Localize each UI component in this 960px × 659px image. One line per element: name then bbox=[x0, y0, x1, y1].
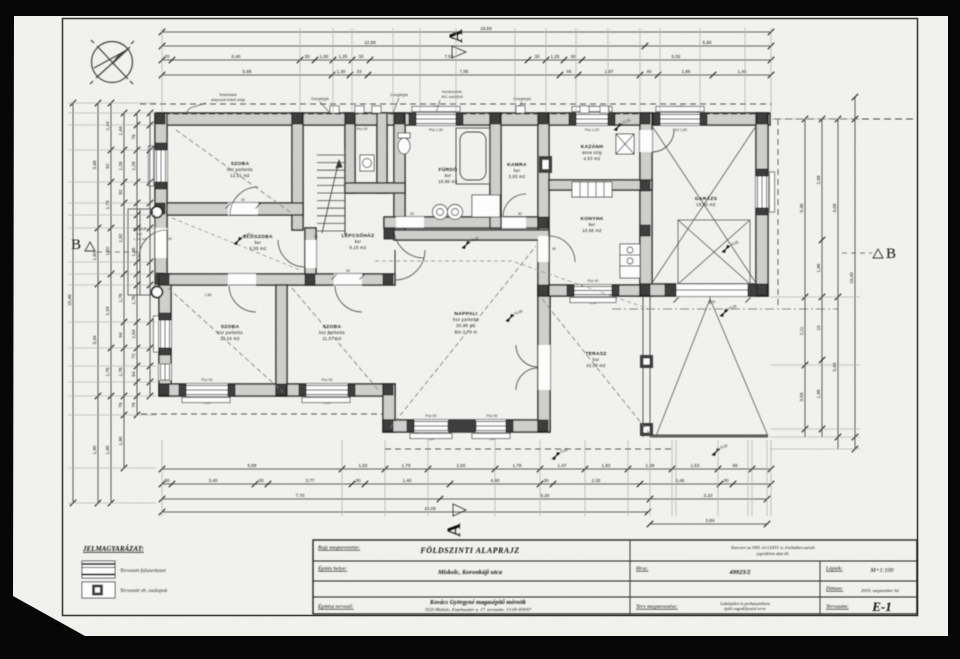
column block J11 bbox=[276, 384, 286, 395]
window top window bath bbox=[416, 113, 456, 125]
leader labels above wall bbox=[211, 89, 532, 102]
column block W10 bbox=[456, 113, 463, 125]
wall garage south bbox=[640, 284, 768, 296]
column block J24 bbox=[640, 180, 650, 191]
ceiling slope dashed bedroom3 bbox=[292, 288, 380, 392]
column block J12 bbox=[383, 384, 393, 395]
level mark nappali bbox=[506, 309, 523, 322]
wall pantry west bbox=[490, 113, 501, 228]
window living south window 2 bbox=[476, 420, 508, 432]
hall slope dashed bbox=[172, 218, 300, 270]
wall exterior left upper bbox=[155, 113, 167, 284]
window bedroom2 window bbox=[159, 320, 171, 348]
terrace door sill bbox=[448, 420, 476, 432]
column block J17 bbox=[757, 284, 767, 295]
window sill bbox=[412, 107, 460, 112]
window bedroom2 south window bbox=[186, 384, 228, 396]
wall bath corridor south bbox=[384, 217, 538, 228]
north symbol bbox=[90, 40, 134, 84]
room label ELOSZOBA bbox=[243, 233, 273, 251]
wall wc south bbox=[345, 183, 405, 193]
column block J23 bbox=[159, 274, 169, 285]
column block W8 bbox=[612, 285, 619, 296]
wall bedroom1 south bbox=[167, 203, 303, 215]
staircase bbox=[317, 150, 345, 235]
small opening dimension marks bbox=[183, 107, 750, 437]
terrace post 2 bbox=[640, 423, 653, 436]
roof overhang dashed line top bbox=[140, 103, 772, 105]
wall bedroom block bottom bbox=[159, 384, 395, 396]
dimension line left 1 bbox=[67, 100, 76, 506]
dimension line top 1 bbox=[159, 26, 774, 35]
dimension line left 4 bbox=[118, 110, 127, 471]
door kitchen door bbox=[549, 236, 575, 262]
wall kitchen south bbox=[538, 285, 652, 296]
level mark terrace sw bbox=[552, 448, 568, 460]
wall wc east bbox=[377, 113, 387, 193]
room label SZOBA 3 bbox=[319, 324, 345, 341]
window small window left bbox=[159, 364, 171, 380]
section line A top marker bbox=[446, 29, 467, 58]
column block J13 bbox=[383, 420, 393, 431]
column block W18 bbox=[159, 348, 171, 355]
wall garage west bbox=[640, 113, 652, 296]
column block J4 bbox=[490, 113, 500, 124]
dimension line right 1 bbox=[799, 116, 808, 437]
column block W20 bbox=[756, 208, 768, 215]
column block J19 bbox=[538, 217, 548, 228]
porch column 1 bbox=[152, 207, 163, 218]
legend column symbol bbox=[82, 582, 115, 598]
door living room entry bbox=[395, 250, 425, 280]
wc toilet bbox=[398, 133, 410, 154]
door bath door bbox=[394, 228, 424, 258]
boiler bbox=[616, 134, 634, 154]
level mark roof apex bbox=[720, 304, 737, 317]
wall bedroom divider bbox=[276, 285, 287, 396]
room label KONYHA bbox=[581, 216, 604, 233]
wall stair hall west bbox=[305, 228, 316, 285]
terrace post 1 bbox=[640, 355, 653, 368]
window top window garage bbox=[660, 113, 700, 125]
column block J5 bbox=[538, 113, 548, 124]
door living terrace door b bbox=[516, 368, 538, 390]
door bedroom2 door bbox=[229, 285, 256, 312]
level mark stairwell bbox=[462, 236, 479, 249]
window kitchen south window bbox=[574, 285, 612, 296]
column block J3 bbox=[394, 113, 404, 124]
window sill bbox=[572, 107, 612, 112]
wall hall south bbox=[159, 274, 395, 285]
vent brick bbox=[600, 106, 609, 113]
title block bbox=[313, 540, 917, 614]
window left bedroom1 window bbox=[155, 150, 167, 182]
room label KAMRA bbox=[507, 162, 527, 179]
masonry hatch line on top wall bbox=[155, 113, 770, 115]
dimension line top 2 bbox=[159, 40, 774, 49]
room label LEPCSOHAZ bbox=[342, 231, 375, 250]
wall shaft east bbox=[394, 113, 405, 230]
wall pantry east bbox=[538, 113, 549, 228]
garage diagonals bbox=[652, 126, 756, 284]
wall living room north bbox=[394, 230, 549, 240]
column block J14 bbox=[538, 420, 548, 431]
door bedroom3 door bbox=[335, 285, 362, 312]
column block W5 bbox=[407, 420, 414, 432]
roof overhang dashed line bottom-left bbox=[141, 413, 392, 415]
dimension line top 3 bbox=[159, 54, 774, 63]
wall exterior left lower bbox=[159, 274, 171, 396]
roof edge line below garage bbox=[612, 308, 838, 310]
dimension line left 6 bbox=[147, 110, 153, 399]
basement stair bbox=[572, 182, 612, 197]
room label GARAZS bbox=[695, 195, 718, 207]
column block J22 bbox=[383, 274, 393, 285]
plot boundary dashed line right bbox=[774, 118, 913, 120]
wall kitchen west bbox=[538, 228, 549, 296]
wall wc west bbox=[345, 113, 355, 193]
room label SZELF bbox=[133, 226, 147, 241]
bathtub bbox=[456, 128, 490, 184]
column block garage jamb R bbox=[748, 284, 757, 296]
column block J9 bbox=[155, 273, 165, 284]
wall garage east bbox=[756, 113, 768, 296]
column block W13 bbox=[653, 113, 660, 125]
level mark garage bbox=[722, 240, 739, 253]
column block W11 bbox=[569, 113, 576, 125]
window sill bbox=[472, 434, 510, 439]
window sill bbox=[302, 398, 350, 403]
window sill bbox=[656, 107, 704, 112]
level mark eloszoba bbox=[234, 232, 251, 245]
small washbasin bbox=[360, 155, 374, 171]
window bedroom3 south window bbox=[306, 384, 348, 396]
room label NAPPALI bbox=[453, 311, 479, 334]
vent brick bbox=[580, 106, 589, 113]
window sill bbox=[182, 398, 230, 403]
legend bbox=[82, 545, 168, 598]
column block W2 bbox=[228, 384, 235, 396]
room label SZOBA 2 bbox=[217, 324, 243, 341]
column block W3 bbox=[299, 384, 306, 396]
dimension line bottom 4 bbox=[159, 506, 651, 515]
column block W14 bbox=[700, 113, 707, 125]
column block J20 bbox=[384, 228, 394, 239]
column block J10 bbox=[159, 384, 169, 395]
porch column 2 bbox=[152, 287, 163, 298]
dimension line right 2 bbox=[816, 116, 825, 437]
kitchen counter bbox=[620, 244, 640, 278]
vent brick bbox=[516, 106, 525, 113]
window sill bbox=[570, 298, 616, 303]
column block garage jamb L bbox=[665, 284, 676, 296]
dimension line right 3 bbox=[832, 116, 841, 449]
dimension line left 3 bbox=[105, 100, 114, 506]
dimension line bottom 5 bbox=[647, 518, 770, 527]
column block J25 bbox=[345, 113, 355, 124]
vent brick bbox=[330, 106, 339, 113]
dimension line left 5 bbox=[131, 110, 140, 418]
wall living room south bbox=[383, 420, 550, 432]
vent brick bbox=[372, 106, 381, 113]
dimension line bottom 2 bbox=[159, 478, 774, 487]
room label SZOBA 1 bbox=[227, 161, 253, 178]
legend wall symbol bbox=[82, 561, 115, 578]
garage door opening bbox=[676, 284, 748, 296]
column block J18 bbox=[640, 225, 650, 236]
column block J1 bbox=[155, 113, 165, 124]
column block W1 bbox=[179, 384, 186, 396]
washbasin double bbox=[433, 205, 463, 220]
ceiling slope dashed bedroom1 bbox=[176, 130, 290, 212]
door bedroom1 door bbox=[230, 187, 258, 215]
column block W4 bbox=[348, 384, 355, 396]
room label TERASZ bbox=[585, 351, 606, 368]
window top window boiler bbox=[576, 113, 608, 125]
column block W19 bbox=[756, 169, 768, 176]
column block J2 bbox=[292, 113, 302, 124]
ceiling slope dashed terrace bbox=[542, 299, 650, 434]
roof hip triangle bbox=[652, 296, 768, 436]
ceiling slope dashed bedroom2 bbox=[168, 288, 283, 392]
column block J8 bbox=[155, 203, 165, 214]
room label FURDO bbox=[438, 166, 458, 184]
column block W6 bbox=[506, 420, 513, 432]
wall boiler south bbox=[549, 180, 652, 190]
chimney bbox=[539, 156, 552, 173]
dimension line bottom 3 bbox=[159, 493, 770, 502]
window garage east window bbox=[756, 176, 768, 208]
column block W17 bbox=[159, 313, 171, 320]
column block J15 bbox=[538, 285, 548, 296]
wall living room west bbox=[383, 384, 395, 432]
dimension line left 2 bbox=[92, 100, 101, 506]
column block W15 bbox=[155, 143, 167, 150]
section line B left marker bbox=[71, 237, 140, 253]
column block J6 bbox=[640, 113, 650, 124]
terrace edge bbox=[643, 296, 768, 437]
door pantry door bbox=[503, 194, 526, 217]
column block J7 bbox=[757, 113, 767, 124]
roof overhang dashed line below living room bbox=[385, 448, 672, 450]
roof valley dashed bbox=[375, 261, 652, 310]
section line A bottom marker bbox=[444, 504, 466, 537]
section line B right marker bbox=[842, 246, 896, 262]
column block J16 bbox=[640, 284, 650, 295]
column block W7 bbox=[567, 285, 574, 296]
window sill bbox=[410, 434, 452, 439]
window sill bbox=[154, 316, 159, 352]
column block W12 bbox=[608, 113, 615, 125]
window living south window 1 bbox=[414, 420, 448, 432]
shower tray bbox=[472, 195, 500, 217]
wall living room east bbox=[538, 285, 550, 432]
column block J21 bbox=[305, 274, 315, 285]
level mark kazanh bbox=[614, 118, 631, 131]
window sill bbox=[770, 172, 775, 212]
column block W9 bbox=[409, 113, 416, 125]
dimension line right 4 bbox=[849, 94, 858, 452]
roof overhang dashed line garage right bbox=[777, 119, 779, 306]
wall bedroom1 east bbox=[292, 113, 303, 230]
wall exterior top bbox=[155, 113, 770, 125]
porch slab bbox=[128, 209, 155, 295]
vent brick bbox=[355, 106, 364, 113]
door entrance door bbox=[139, 230, 167, 258]
door boiler-garage door bbox=[652, 130, 674, 152]
door living terrace door a bbox=[516, 345, 538, 367]
dimension line top 4 bbox=[159, 69, 774, 78]
door stair hall door bbox=[278, 240, 305, 268]
window sill bbox=[149, 146, 154, 186]
column block W16 bbox=[155, 182, 167, 189]
ceiling slope dashed living bbox=[390, 246, 536, 428]
room label KAZANH bbox=[581, 143, 604, 161]
level mark terrace se bbox=[712, 444, 728, 456]
dimension line bottom 1 bbox=[159, 463, 774, 472]
